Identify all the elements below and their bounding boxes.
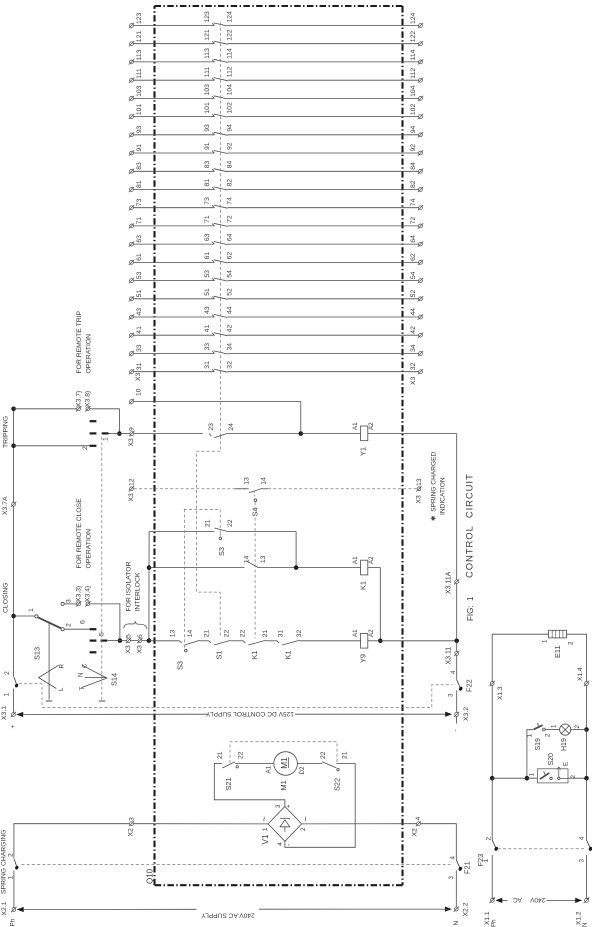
svg-text:84: 84 bbox=[226, 161, 233, 169]
svg-text:D2: D2 bbox=[299, 766, 306, 774]
svg-text:2: 2 bbox=[486, 837, 493, 841]
S13 operator (L/R handle symbol) bbox=[39, 623, 66, 701]
svg-text:4: 4 bbox=[450, 856, 457, 860]
svg-text:X3.2: X3.2 bbox=[463, 707, 470, 721]
wire junction up to S3/S1 rows bbox=[148, 532, 150, 641]
svg-text:X2.2: X2.2 bbox=[462, 902, 469, 916]
wire bus to S13 common bbox=[14, 615, 35, 617]
svg-text:74: 74 bbox=[410, 198, 417, 206]
terminal X3.11A bbox=[445, 571, 459, 641]
svg-text:~: ~ bbox=[301, 816, 311, 821]
svg-text:K1: K1 bbox=[284, 650, 293, 659]
junction X3.11 node bbox=[454, 639, 459, 644]
terminal X1.2 (AC N) bbox=[575, 898, 589, 927]
close coil Y9 bbox=[352, 629, 375, 663]
svg-text:122: 122 bbox=[410, 31, 417, 43]
junction on bus (trip wire 2) bbox=[11, 444, 89, 449]
svg-text:S19: S19 bbox=[535, 738, 542, 751]
DC + bus vertical wire (left) bbox=[13, 409, 15, 677]
svg-text:E: E bbox=[563, 762, 570, 766]
terminal strip label X3 (right) bbox=[410, 376, 417, 385]
svg-text:124: 124 bbox=[410, 12, 417, 24]
svg-text:53: 53 bbox=[136, 271, 143, 279]
rectifier bridge V1 bbox=[259, 804, 311, 846]
label CLOSING bbox=[3, 582, 10, 613]
Q10 aux contact 91-92 on terminal X3 row bbox=[129, 142, 423, 155]
label X3.7A terminal on bus bbox=[2, 496, 16, 515]
terminal X3.3 (remote close) bbox=[75, 585, 82, 607]
svg-text:51: 51 bbox=[204, 288, 211, 296]
svg-text:61: 61 bbox=[204, 252, 211, 260]
dashed linkage S4 to K1 contacts bbox=[254, 502, 256, 639]
terminal X1.4 bbox=[577, 667, 589, 729]
contactor K1 contact 31-32 bbox=[277, 630, 303, 660]
svg-text:61: 61 bbox=[136, 253, 143, 261]
svg-text:101: 101 bbox=[204, 102, 211, 114]
wire X2.3 to rectifier V1 ~1 bbox=[134, 823, 268, 825]
MCB F21 (pins 4-3) bbox=[448, 856, 472, 908]
svg-text:103: 103 bbox=[136, 85, 143, 97]
top rail to right vertical bbox=[567, 634, 587, 681]
svg-text:94: 94 bbox=[226, 124, 233, 132]
svg-text:6: 6 bbox=[79, 620, 86, 624]
wire to terminal X3.9 bbox=[119, 433, 129, 435]
heater circuit top rail bbox=[492, 634, 548, 683]
wire Y1 to X3.11A branch bbox=[368, 433, 457, 435]
junction on bus (closing) bbox=[11, 614, 16, 619]
MCB F23 pole 1-2 bbox=[476, 837, 499, 899]
svg-text:X3: X3 bbox=[410, 376, 417, 385]
svg-text:21: 21 bbox=[204, 519, 211, 527]
return wire to X3.11 node bbox=[380, 640, 456, 642]
svg-text:51: 51 bbox=[136, 290, 143, 298]
terminal X3.2 (DC supply -) bbox=[453, 707, 470, 732]
svg-text:FIG: 1: FIG: 1 bbox=[466, 596, 475, 621]
svg-text:12: 12 bbox=[128, 478, 135, 486]
svg-text:23: 23 bbox=[208, 423, 215, 431]
label 240V (inverted) bbox=[530, 896, 546, 903]
svg-text:41: 41 bbox=[136, 326, 143, 334]
wire with terminals X3.5 X3.6 (isolator interlock) bbox=[120, 640, 149, 642]
wire into S3 21-22 row bbox=[149, 531, 214, 533]
svg-text:1: 1 bbox=[7, 876, 14, 880]
svg-text:24: 24 bbox=[228, 423, 235, 431]
Q10 aux contact 101-102 on terminal X3 row bbox=[129, 102, 423, 119]
svg-text:2: 2 bbox=[568, 641, 575, 645]
svg-text:-: - bbox=[285, 844, 292, 846]
wire to K1 22-21 bbox=[230, 640, 243, 642]
svg-text:1: 1 bbox=[529, 773, 536, 777]
Q10 aux contact 33-34 on terminal X3 row bbox=[129, 343, 423, 356]
Q10 aux contact 83-84 on terminal X3 row bbox=[129, 161, 423, 174]
terminal X1.1 (AC Ph) bbox=[484, 898, 495, 926]
svg-text:112: 112 bbox=[226, 66, 233, 77]
svg-text:A2: A2 bbox=[368, 556, 375, 564]
svg-text:X2: X2 bbox=[128, 828, 135, 837]
svg-text:F22: F22 bbox=[465, 679, 474, 692]
svg-text:FOR REMOTE CLOSE: FOR REMOTE CLOSE bbox=[76, 498, 83, 569]
terminal X2.3 bbox=[128, 817, 136, 837]
label TRIPPING bbox=[3, 416, 10, 448]
svg-text:A1: A1 bbox=[352, 422, 359, 430]
MCB F22 (pins 4-3) bbox=[448, 655, 474, 712]
svg-text:X3.4}: X3.4} bbox=[85, 585, 92, 602]
svg-text:X3: X3 bbox=[125, 645, 132, 654]
wire into 14-13 row bbox=[149, 567, 245, 569]
Q10 aux contact 53-54 on terminal X3 row bbox=[129, 270, 423, 283]
svg-text:M1: M1 bbox=[279, 780, 288, 790]
DC supply arrowhead at X3.2 bbox=[445, 712, 452, 717]
svg-text:X3: X3 bbox=[128, 493, 135, 502]
svg-text:X3.11: X3.11 bbox=[445, 647, 452, 665]
svg-text:21: 21 bbox=[262, 630, 269, 638]
note FOR REMOTE CLOSE OPERATION bbox=[76, 498, 92, 569]
wire X3.4 down to close link row bbox=[90, 604, 120, 641]
svg-text:125V DC CONTROL SUPPLY: 125V DC CONTROL SUPPLY bbox=[205, 710, 294, 717]
svg-text:X2: X2 bbox=[411, 828, 418, 837]
svg-text:INTERLOCK: INTERLOCK bbox=[135, 572, 142, 611]
svg-text:1: 1 bbox=[102, 437, 109, 441]
svg-text:V1: V1 bbox=[261, 834, 270, 844]
svg-text:FOR ISOLATOR: FOR ISOLATOR bbox=[125, 561, 132, 611]
junction S1 row tap bbox=[147, 565, 152, 570]
svg-text:31: 31 bbox=[136, 362, 143, 370]
svg-text:A1: A1 bbox=[352, 629, 359, 637]
svg-text:2: 2 bbox=[8, 853, 15, 857]
svg-text:102: 102 bbox=[410, 104, 417, 116]
motor loop: S21 branch wire bbox=[214, 764, 285, 807]
S13 aux contact 1-2 in DC supply bbox=[4, 671, 19, 713]
switch S3 contact 21-22 bbox=[204, 519, 296, 556]
svg-text:21: 21 bbox=[217, 751, 224, 759]
node A junction (X3.10 branch) bbox=[299, 431, 304, 436]
svg-text:K1: K1 bbox=[250, 650, 259, 659]
svg-text:1: 1 bbox=[526, 734, 533, 738]
svg-text:3: 3 bbox=[275, 804, 282, 808]
wire S13-3 to terminal X3.3 bbox=[64, 603, 76, 605]
svg-text:123: 123 bbox=[136, 12, 143, 24]
svg-text:TRIPPING: TRIPPING bbox=[3, 416, 10, 448]
svg-text:72: 72 bbox=[226, 215, 233, 223]
svg-text:5: 5 bbox=[125, 634, 132, 638]
wire X3.6 junction into Q10 (close row) bbox=[149, 640, 180, 642]
svg-text:52: 52 bbox=[226, 288, 233, 296]
svg-text:22: 22 bbox=[227, 519, 234, 527]
svg-text:83: 83 bbox=[136, 162, 143, 170]
svg-text:63: 63 bbox=[136, 235, 143, 243]
svg-text:121: 121 bbox=[204, 29, 211, 41]
wire Y1 return down to X3.11 node bbox=[456, 434, 458, 580]
label AC (inverted) bbox=[513, 896, 522, 903]
svg-text:-: - bbox=[453, 729, 460, 731]
spring charge interlock contact 1-2 (left) bbox=[7, 853, 19, 908]
svg-text:OPERATION: OPERATION bbox=[85, 334, 92, 374]
svg-text:X3: X3 bbox=[415, 495, 422, 504]
Q10 aux contact 111-112 on terminal X3 row bbox=[129, 66, 423, 83]
terminal X3.8 (remote trip) bbox=[85, 390, 92, 411]
terminal X2.4 bbox=[411, 817, 422, 837]
svg-text:91: 91 bbox=[204, 142, 211, 150]
svg-text:Y9: Y9 bbox=[359, 654, 368, 663]
svg-text:21: 21 bbox=[204, 630, 211, 638]
svg-text:14: 14 bbox=[261, 477, 268, 485]
svg-text:53: 53 bbox=[204, 270, 211, 278]
dashed linkage main mechanism to contacts bbox=[184, 436, 221, 648]
svg-text:S1: S1 bbox=[215, 650, 224, 659]
dashed indication wire X3.12 to S4 bbox=[134, 488, 248, 490]
close link bars (pins 5-6) bbox=[79, 620, 107, 652]
limit switch S21 contact 21-22 bbox=[217, 751, 274, 790]
svg-text:71: 71 bbox=[136, 217, 143, 225]
svg-text:H19: H19 bbox=[561, 738, 568, 751]
svg-text:3: 3 bbox=[66, 599, 73, 603]
svg-text:31: 31 bbox=[204, 361, 211, 369]
note FOR REMOTE TRIP OPERATION bbox=[76, 310, 92, 373]
svg-text:A1: A1 bbox=[266, 765, 273, 773]
terminal X3.10 and wire to node A bbox=[129, 388, 301, 433]
Q10 aux contact 121-122 on terminal X3 row bbox=[129, 29, 423, 46]
svg-text:34: 34 bbox=[410, 344, 417, 352]
DC supply wire right segment to X3.2 bbox=[295, 713, 449, 715]
Q10 contact 23-24 bbox=[208, 423, 235, 438]
svg-text:X3.11A: X3.11A bbox=[445, 571, 452, 594]
svg-text:AC: AC bbox=[513, 896, 522, 903]
svg-text:42: 42 bbox=[226, 324, 233, 332]
selector switch S13 (contacts 1-2-3) bbox=[28, 599, 73, 660]
svg-text:T: T bbox=[79, 687, 86, 691]
svg-text:13: 13 bbox=[416, 478, 423, 486]
svg-text:240V: 240V bbox=[530, 896, 546, 903]
svg-text:13: 13 bbox=[170, 630, 177, 638]
Q10 aux contact 41-42 on terminal X3 row bbox=[129, 324, 423, 337]
terminal X3.12 (spring charged indication) bbox=[128, 478, 136, 501]
svg-text:93: 93 bbox=[204, 124, 211, 132]
svg-text:S14: S14 bbox=[110, 673, 119, 686]
svg-text:2: 2 bbox=[545, 733, 552, 737]
svg-text:72: 72 bbox=[410, 217, 417, 225]
svg-text:82: 82 bbox=[226, 179, 233, 187]
AC arrowhead at X1.1 bbox=[495, 898, 507, 903]
svg-text:54: 54 bbox=[410, 271, 417, 279]
svg-text:63: 63 bbox=[204, 233, 211, 241]
svg-text:73: 73 bbox=[136, 198, 143, 206]
limit switch S22 contact 22-21 bbox=[297, 751, 348, 791]
svg-text:33: 33 bbox=[204, 343, 211, 351]
MCB F23 pole 3-4 bbox=[579, 836, 592, 899]
svg-text:92: 92 bbox=[226, 142, 233, 150]
svg-text:124: 124 bbox=[226, 11, 233, 23]
Q10 aux contact 73-74 on terminal X3 row bbox=[129, 197, 423, 210]
svg-text:1: 1 bbox=[28, 608, 35, 612]
svg-text:S3: S3 bbox=[217, 547, 226, 556]
junction X3.6 branch to upper rows bbox=[147, 638, 152, 643]
terminal X3.6 bbox=[136, 634, 144, 654]
junction trip link / X3.8 branch bbox=[109, 431, 122, 436]
dashed indication wire S4 to X3.13 bbox=[268, 488, 417, 490]
Q10 aux contact 93-94 on terminal X3 row bbox=[129, 124, 423, 137]
svg-text:N: N bbox=[453, 921, 460, 926]
svg-text:1: 1 bbox=[4, 693, 11, 697]
svg-text:CLOSING: CLOSING bbox=[3, 582, 10, 613]
svg-text:64: 64 bbox=[226, 233, 233, 241]
svg-text:E11: E11 bbox=[553, 645, 562, 658]
note SPRING CHARGED INDICATION with asterisk bbox=[429, 451, 446, 521]
label FIG: 1 bbox=[466, 596, 475, 621]
svg-text:C: C bbox=[81, 663, 88, 668]
heater E11 (pins 1-2) bbox=[542, 630, 575, 658]
svg-text:X3.1: X3.1 bbox=[1, 706, 8, 720]
svg-text:~: ~ bbox=[259, 816, 269, 821]
svg-text:111: 111 bbox=[136, 68, 143, 79]
svg-text:1: 1 bbox=[542, 639, 549, 643]
svg-text:2: 2 bbox=[574, 725, 581, 729]
Q10 aux contact 31-32 on terminal X3 row bbox=[129, 361, 423, 374]
svg-text:104: 104 bbox=[410, 85, 417, 97]
svg-text:22: 22 bbox=[237, 751, 244, 759]
svg-text:121: 121 bbox=[136, 31, 143, 43]
dashed linkage S21-S22 bbox=[230, 742, 337, 763]
wire S3-22 down to K1 row bbox=[295, 532, 297, 568]
terminal X3.11 bbox=[445, 641, 459, 665]
wire bus to terminal X3.7 bbox=[14, 408, 77, 410]
svg-text:62: 62 bbox=[410, 253, 417, 261]
svg-text:Y1: Y1 bbox=[359, 447, 368, 456]
svg-text:112: 112 bbox=[410, 68, 417, 79]
svg-text:3: 3 bbox=[128, 817, 135, 821]
junction on bus (trip wire 1) bbox=[11, 407, 16, 412]
svg-text:103: 103 bbox=[204, 84, 211, 96]
svg-text:X3.7A: X3.7A bbox=[2, 496, 9, 515]
AC supply wire right segment bbox=[259, 908, 449, 910]
wire X2.3 AC feed bbox=[14, 824, 129, 859]
junction mid rail left bbox=[490, 776, 538, 781]
svg-text:13: 13 bbox=[260, 555, 267, 563]
svg-text:82: 82 bbox=[410, 180, 417, 188]
wire X3.8 to trip link bbox=[90, 409, 120, 434]
svg-text:+: + bbox=[10, 725, 17, 729]
svg-text:43: 43 bbox=[136, 308, 143, 316]
AC wire and arrowhead at X1.2 bbox=[547, 898, 583, 903]
terminal X3.13 bbox=[415, 478, 423, 503]
switch S19 (pins 1-2) bbox=[526, 723, 551, 778]
terminal X3.7 (remote trip) bbox=[75, 390, 82, 411]
svg-text:FOR REMOTE TRIP: FOR REMOTE TRIP bbox=[76, 310, 83, 373]
S14 operator (T-N-C handle symbol, dashed stem) bbox=[77, 437, 118, 701]
svg-text:A1: A1 bbox=[352, 556, 359, 564]
svg-text:X2.1: X2.1 bbox=[1, 901, 8, 915]
svg-text:X3: X3 bbox=[135, 372, 142, 381]
svg-text:A2: A2 bbox=[368, 629, 375, 637]
svg-text:44: 44 bbox=[226, 306, 233, 314]
label SPRING CHARGING bbox=[1, 829, 8, 894]
svg-text:64: 64 bbox=[410, 235, 417, 243]
svg-text:S21: S21 bbox=[224, 777, 233, 790]
svg-text:13: 13 bbox=[244, 477, 251, 485]
label 125V DC CONTROL SUPPLY bbox=[205, 710, 294, 717]
dashed linkage F23 poles bbox=[498, 848, 585, 850]
svg-text:A2: A2 bbox=[368, 422, 375, 430]
switch S4 contact 13-14 (spring charged) bbox=[235, 477, 268, 516]
svg-text:3: 3 bbox=[579, 859, 586, 863]
dashed spring-charging mechanical linkage bbox=[22, 864, 451, 866]
svg-text:54: 54 bbox=[226, 270, 233, 278]
svg-text:Ph: Ph bbox=[491, 919, 498, 927]
title CONTROL CIRCUIT bbox=[464, 473, 475, 578]
svg-text:84: 84 bbox=[410, 162, 417, 170]
svg-text:240V AC SUPPLY: 240V AC SUPPLY bbox=[201, 912, 255, 919]
svg-text:X3: X3 bbox=[128, 438, 135, 447]
svg-text:111: 111 bbox=[204, 67, 211, 78]
svg-text:94: 94 bbox=[410, 126, 417, 134]
svg-text:6: 6 bbox=[137, 634, 144, 638]
wire to S1 21-22 bbox=[200, 640, 209, 642]
terminal strip label X3 (left) bbox=[135, 372, 142, 381]
svg-text:S20: S20 bbox=[548, 753, 555, 766]
DC supply arrowhead at X3.1 bbox=[16, 712, 207, 717]
svg-text:1: 1 bbox=[262, 827, 269, 831]
switch S3 contact 13-14 bbox=[170, 630, 200, 670]
svg-text:R: R bbox=[59, 664, 66, 669]
svg-text:42: 42 bbox=[410, 326, 417, 334]
svg-text:83: 83 bbox=[204, 161, 211, 169]
svg-text:114: 114 bbox=[226, 48, 233, 59]
Q10 aux contact 63-64 on terminal X3 row bbox=[129, 233, 423, 246]
svg-text:10: 10 bbox=[136, 388, 143, 396]
svg-text:32: 32 bbox=[296, 630, 303, 638]
svg-text:32: 32 bbox=[226, 361, 233, 369]
terminal X1.3 bbox=[490, 681, 504, 778]
wire S19 to lamp H19 bbox=[545, 729, 560, 731]
svg-text:4: 4 bbox=[450, 670, 457, 674]
svg-text:81: 81 bbox=[204, 179, 211, 187]
contactor coil K1 bbox=[352, 556, 375, 590]
svg-text:INDICATION: INDICATION bbox=[440, 477, 447, 515]
svg-text:S13: S13 bbox=[33, 647, 42, 660]
svg-text:F21: F21 bbox=[463, 861, 472, 874]
svg-text:34: 34 bbox=[226, 343, 233, 351]
mid rail to right vertical bbox=[568, 777, 587, 779]
svg-text:22: 22 bbox=[320, 751, 327, 759]
brace and note FOR ISOLATOR INTERLOCK bbox=[124, 561, 147, 629]
wire rectifier ~2 to X2.4 bbox=[302, 823, 417, 825]
svg-text:X3: X3 bbox=[136, 645, 143, 654]
terminal X2.2 (AC supply N) bbox=[453, 902, 470, 925]
svg-text:Q10: Q10 bbox=[145, 868, 154, 884]
svg-text:2: 2 bbox=[66, 623, 73, 627]
svg-text:2: 2 bbox=[300, 827, 307, 831]
Q10 aux contact 71-72 on terminal X3 row bbox=[129, 215, 423, 228]
svg-text:14: 14 bbox=[187, 630, 194, 638]
svg-text:S3: S3 bbox=[176, 661, 185, 670]
wire X2.4 to F21 bbox=[421, 824, 457, 860]
junction Y9/K1 common return bbox=[368, 639, 383, 644]
svg-text:122: 122 bbox=[226, 29, 233, 41]
svg-text:32: 32 bbox=[410, 362, 417, 370]
wire 32 to close coil Y9 bbox=[299, 640, 360, 642]
Q10 aux contact 51-52 on terminal X3 row bbox=[129, 288, 423, 301]
wire 13 to K1 coil bbox=[258, 567, 360, 569]
contactor K1 contact 22-21 bbox=[240, 630, 269, 660]
motor loop: S22 to rectifier - wire bbox=[285, 764, 355, 848]
wire X3.9 into Q10 (trip row) bbox=[134, 433, 203, 435]
Q10 aux contact 81-82 on terminal X3 row bbox=[129, 179, 423, 192]
mechanical linkage dashed line of aux contact block bbox=[219, 23, 221, 437]
trip link bars (pins 1-2) bbox=[82, 421, 109, 450]
svg-text:9: 9 bbox=[129, 427, 136, 431]
svg-text:44: 44 bbox=[410, 308, 417, 316]
junction S3 branch on K1 row bbox=[294, 565, 299, 570]
svg-text:X1.3: X1.3 bbox=[497, 686, 504, 700]
